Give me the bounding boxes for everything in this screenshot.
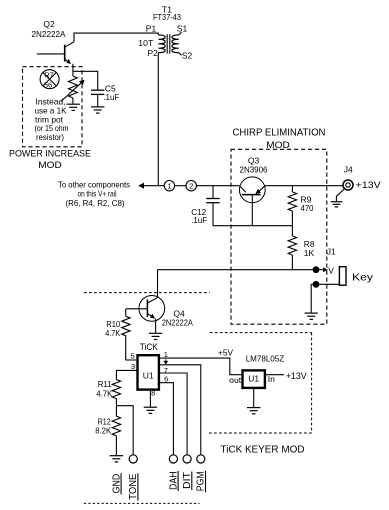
junction dot J1 sleeve	[313, 281, 320, 288]
label T1	[162, 4, 172, 14]
svg-text:.1uF: .1uF	[191, 215, 207, 225]
resistor R10	[122, 316, 130, 336]
label 2N3906	[240, 164, 268, 174]
wire rail to R9	[291, 186, 293, 192]
wire sleeve to jack	[319, 283, 339, 285]
note R6 R4 R2 C8	[66, 198, 125, 208]
ground GND pad	[110, 456, 123, 462]
label S2	[182, 50, 193, 60]
svg-text:Key: Key	[352, 272, 374, 284]
wire pin1 to regulator	[159, 358, 243, 375]
wire R10 to pin5	[126, 336, 137, 360]
wire rail to C12	[212, 186, 214, 199]
note on this V+ rail	[78, 189, 117, 199]
svg-text:1: 1	[164, 350, 168, 359]
svg-text:+13V: +13V	[286, 371, 307, 381]
trim pot (replacement for R7)	[61, 76, 85, 101]
dashed TiCK box top-right segment	[210, 332, 312, 334]
resistor R12	[112, 416, 120, 436]
label R8	[304, 239, 315, 249]
svg-text:CHIRP ELIMINATION: CHIRP ELIMINATION	[233, 128, 326, 139]
note trim pot	[35, 114, 64, 124]
wire R12 to ground	[115, 436, 117, 455]
svg-text:resistor): resistor)	[36, 132, 64, 142]
svg-text:2N2222A: 2N2222A	[162, 318, 193, 328]
label Q2	[43, 19, 55, 29]
label PGM (rotated)	[196, 471, 207, 492]
wire T1 P2 down to V+ rail	[157, 53, 159, 186]
svg-text:1K: 1K	[304, 248, 315, 258]
dashed box POWER INCREASE MOD	[23, 67, 83, 147]
wire lower rail	[213, 225, 292, 227]
resistor R8	[288, 236, 296, 255]
label 56	[44, 80, 52, 89]
wire Q3 emitter to J4	[265, 185, 343, 187]
label Q3	[248, 156, 260, 166]
IC U1 TiCK	[138, 355, 159, 389]
note resistor	[36, 132, 64, 142]
title MOD (chirp)	[266, 140, 290, 151]
wire regulator to ground	[253, 388, 255, 407]
label V	[328, 266, 334, 276]
arrow into pin2 wire	[163, 359, 168, 364]
svg-text:POWER INCREASE: POWER INCREASE	[9, 148, 91, 159]
label +13V at J4	[356, 180, 382, 191]
svg-text:P2: P2	[147, 48, 158, 58]
ground Q4	[149, 333, 162, 339]
transformer T1	[158, 32, 181, 55]
title TiCK KEYER MOD	[221, 444, 305, 455]
ground U1 pin8	[144, 407, 157, 413]
label Q4	[173, 309, 185, 319]
label R11	[98, 379, 112, 389]
svg-text:5: 5	[130, 351, 134, 360]
wire regulator in to +13V	[265, 374, 284, 376]
wire Q2 emitter down	[72, 64, 74, 76]
label R12	[98, 417, 111, 427]
wire J4 to ground	[336, 189, 344, 201]
title MOD (power)	[38, 160, 62, 171]
label C5	[105, 84, 116, 94]
wire Q2 collector to T1 P1	[74, 33, 158, 42]
wire pot to ground	[72, 98, 74, 104]
pad DAH	[169, 455, 177, 463]
ground regulator	[247, 408, 260, 414]
ground key	[305, 313, 318, 319]
svg-text:U1: U1	[248, 373, 259, 383]
wire pin3 to R11	[116, 370, 136, 379]
label +5V	[218, 348, 233, 358]
ground C5	[91, 107, 104, 113]
pad PGM	[197, 455, 205, 463]
svg-text:10T: 10T	[138, 38, 153, 48]
node 1	[164, 181, 174, 191]
svg-text:R7: R7	[44, 70, 54, 79]
wire junction to TONE pad	[116, 406, 133, 455]
svg-text:(R6, R4, R2, C8): (R6, R4, R2, C8)	[66, 198, 125, 208]
label S1	[177, 23, 188, 33]
title CHIRP ELIMINATION	[233, 128, 326, 139]
label R12 value	[95, 425, 111, 435]
label FT37-43	[153, 12, 181, 22]
label C12 value	[191, 215, 207, 225]
svg-text:Q2: Q2	[43, 19, 55, 29]
note use a 1K	[35, 105, 67, 115]
svg-text:U1: U1	[143, 370, 154, 380]
wire R11 to junction	[115, 399, 117, 417]
svg-text:S2: S2	[182, 50, 193, 60]
svg-text:6: 6	[164, 374, 168, 383]
label R10	[106, 319, 120, 329]
note to other components	[58, 179, 130, 189]
connector J4	[343, 180, 353, 190]
label R9	[301, 194, 312, 204]
capacitor C5	[91, 90, 104, 106]
label out	[229, 375, 242, 385]
svg-text:+5V: +5V	[218, 348, 233, 358]
label GND (rotated)	[111, 473, 122, 494]
svg-text:LM78L05Z: LM78L05Z	[246, 353, 285, 363]
pad TONE	[129, 455, 137, 463]
wire dot to V arrow	[319, 269, 324, 271]
label J4	[344, 165, 353, 175]
svg-text:4.7K: 4.7K	[105, 328, 120, 338]
pin label 8	[151, 388, 155, 397]
label R7	[44, 70, 54, 79]
key jack J1	[339, 267, 346, 286]
wire pin6 to DAH pad	[159, 383, 174, 455]
svg-text:R11: R11	[98, 379, 112, 389]
label P2	[147, 48, 158, 58]
wire Q4 base to R10	[125, 309, 127, 317]
label R11 value	[96, 389, 112, 399]
svg-text:2N3906: 2N3906	[240, 164, 268, 174]
svg-text:+13V: +13V	[356, 180, 382, 191]
label TiCK	[140, 342, 159, 353]
label In	[268, 374, 275, 384]
wire sleeve to ground	[311, 284, 316, 312]
transistor Q4	[126, 296, 165, 333]
wire R9 to lower rail	[291, 211, 293, 236]
pin label 3	[131, 362, 135, 371]
label LM78L05Z	[246, 353, 285, 363]
dashed TiCK box top-left segment	[84, 292, 210, 294]
svg-text:J1: J1	[327, 246, 336, 256]
pin label 1	[164, 350, 168, 359]
label Q4 2N2222A	[162, 318, 193, 328]
note instead	[36, 96, 66, 106]
dashed TiCK box right edge	[311, 333, 313, 433]
svg-text:1: 1	[167, 182, 171, 191]
pin label 6	[164, 374, 168, 383]
arrow to other components	[138, 183, 144, 189]
label +13V at regulator	[286, 371, 307, 381]
svg-text:2N2222A: 2N2222A	[32, 29, 66, 39]
capacitor C12	[206, 199, 219, 226]
svg-text:MOD: MOD	[266, 140, 290, 151]
transistor Q2	[37, 42, 74, 64]
label C12	[191, 207, 206, 217]
svg-text:out: out	[229, 375, 242, 385]
svg-text:TiCK: TiCK	[140, 342, 159, 353]
wire pin8 to ground	[149, 390, 151, 407]
svg-text:TiCK KEYER MOD: TiCK KEYER MOD	[221, 444, 305, 455]
wire emitter branch to C5	[73, 71, 98, 90]
svg-text:2: 2	[189, 182, 193, 191]
junction dot J1 tip	[313, 266, 320, 273]
svg-text:8.2K: 8.2K	[95, 425, 111, 435]
ground J4	[331, 202, 343, 207]
wire node 2 to Q3	[196, 185, 239, 187]
regulator U1 LM78L05Z	[243, 370, 265, 388]
dashed TiCK box bottom-left segment	[84, 502, 200, 504]
svg-text:on this V+ rail: on this V+ rail	[78, 189, 117, 199]
wire node 1 to node 2	[175, 185, 186, 187]
dashed TiCK box bottom-right segment	[209, 432, 312, 434]
wire rail arrow to node 1	[144, 185, 164, 187]
svg-text:P1: P1	[146, 23, 157, 33]
svg-text:470: 470	[301, 203, 314, 213]
title POWER INCREASE	[9, 148, 91, 159]
label Key	[352, 272, 374, 284]
svg-text:S1: S1	[177, 23, 188, 33]
label DIT (rotated)	[182, 472, 193, 491]
wire pin7 to DIT pad	[159, 373, 187, 455]
pin label 7	[164, 366, 168, 375]
svg-text:FT37-43: FT37-43	[153, 12, 181, 22]
pad DIT	[183, 455, 191, 463]
label 1K	[304, 248, 315, 258]
note or 15 ohm	[35, 123, 69, 133]
node 2	[186, 181, 196, 191]
label 470	[301, 203, 314, 213]
svg-text:56: 56	[44, 80, 52, 89]
resistor R11	[112, 380, 120, 399]
wire R8 to key line	[291, 255, 293, 270]
label DAH (rotated)	[168, 471, 179, 491]
label 2N2222A	[32, 29, 66, 39]
label TONE (rotated)	[128, 473, 139, 501]
wire key line	[158, 269, 317, 271]
resistor R7 (crossed out)	[40, 70, 59, 89]
svg-text:4.7K: 4.7K	[96, 389, 112, 399]
svg-text:In: In	[268, 374, 275, 384]
wire key line to Q4	[157, 270, 159, 298]
label P1	[146, 23, 157, 33]
transistor Q3	[239, 177, 265, 226]
pin label 5	[130, 351, 134, 360]
label J1	[327, 246, 336, 256]
svg-text:.1uF: .1uF	[103, 92, 119, 102]
svg-text:J4: J4	[344, 165, 353, 175]
svg-text:V: V	[328, 266, 334, 276]
dashed box CHIRP ELIMINATION MOD	[231, 149, 327, 324]
svg-text:8: 8	[151, 388, 155, 397]
arrow V	[323, 267, 328, 272]
svg-text:MOD: MOD	[38, 160, 62, 171]
wire pin2 to PGM pad	[159, 365, 201, 455]
label C5 value	[103, 92, 119, 102]
label R10 value	[105, 328, 120, 338]
ground trim pot	[67, 104, 80, 110]
resistor R9	[288, 192, 296, 211]
label 10T	[138, 38, 153, 48]
